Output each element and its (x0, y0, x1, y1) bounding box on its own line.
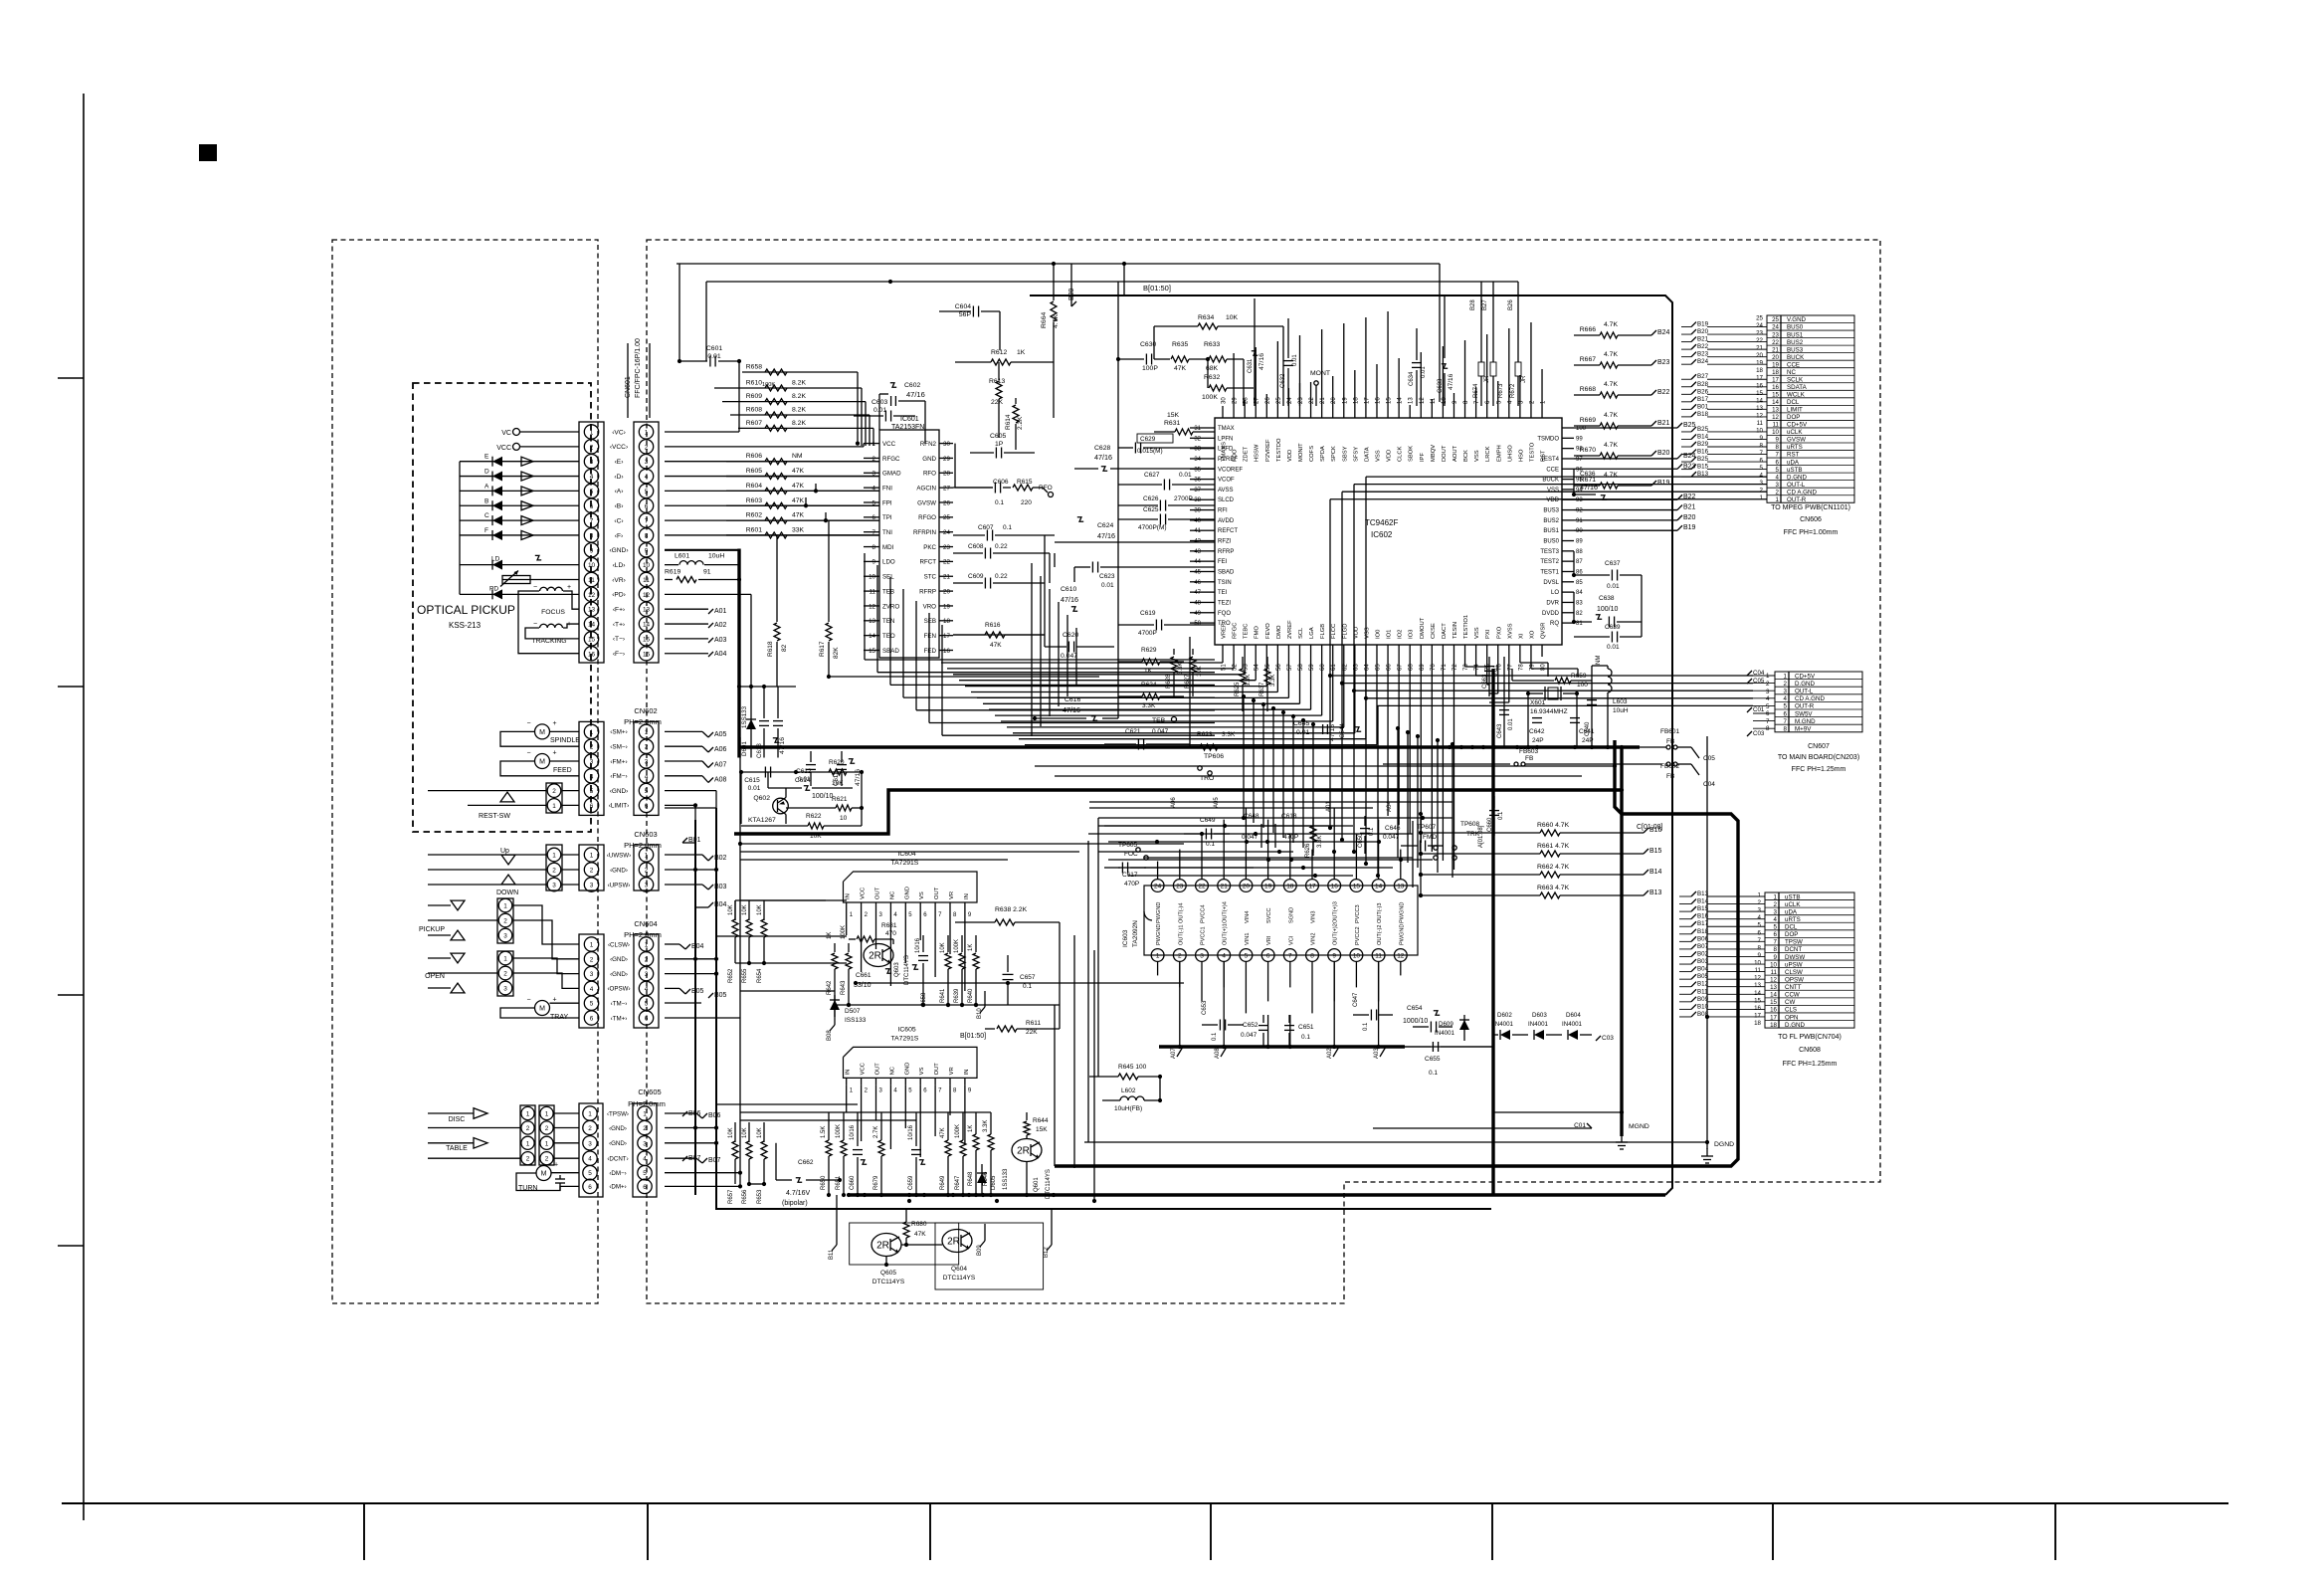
svg-text:Q604: Q604 (951, 1266, 967, 1273)
svg-text:1: 1 (1766, 673, 1770, 680)
svg-text:3: 3 (1200, 953, 1204, 960)
svg-text:47/16: 47/16 (1061, 595, 1078, 604)
svg-text:0.01: 0.01 (1607, 644, 1620, 651)
svg-text:0.01: 0.01 (1179, 472, 1192, 479)
svg-text:R611: R611 (1026, 1020, 1041, 1027)
svg-text:JR: JR (1521, 375, 1527, 383)
svg-text:SEL: SEL (882, 574, 894, 581)
wire PD row (665, 594, 751, 687)
svg-text:1K: 1K (1017, 349, 1026, 356)
svg-text:0.1: 0.1 (995, 499, 1004, 506)
svg-text:RFCT: RFCT (920, 559, 937, 566)
svg-text:0.1: 0.1 (1363, 1022, 1369, 1031)
svg-text:VIN1: VIN1 (1245, 933, 1251, 945)
resistor R629 1K (1118, 647, 1184, 675)
svg-text:PVREF: PVREF (1218, 457, 1238, 463)
svg-text:R673: R673 (1498, 383, 1504, 398)
svg-text:47K: 47K (792, 468, 805, 475)
capacitor C625 4700P(M) (1118, 506, 1215, 531)
svg-text:2: 2 (552, 788, 556, 795)
bus tag A03 (665, 637, 727, 644)
svg-text:27: 27 (943, 485, 950, 492)
svg-text:‹T+›: ‹T+› (613, 621, 625, 628)
svg-text:R647: R647 (955, 1175, 961, 1190)
svg-text:8: 8 (1310, 953, 1314, 960)
svg-text:1: 1 (590, 942, 594, 949)
svg-text:R653: R653 (757, 1189, 763, 1204)
capacitors C663 C643 0.01 (1482, 657, 1514, 747)
svg-text:C614: C614 (795, 777, 811, 784)
svg-text:‹F+›: ‹F+› (613, 607, 625, 614)
svg-text:B24: B24 (1657, 329, 1670, 336)
connector CN604 column B (607, 934, 659, 1028)
svg-text:C628: C628 (1094, 445, 1110, 452)
svg-text:17: 17 (943, 633, 950, 640)
svg-text:100P: 100P (1142, 365, 1158, 372)
svg-text:IC603: IC603 (1122, 929, 1129, 947)
svg-text:16.9344MHZ: 16.9344MHZ (1530, 708, 1568, 715)
svg-text:0.01: 0.01 (1101, 582, 1114, 589)
svg-text:84: 84 (1576, 590, 1583, 596)
svg-text:100K: 100K (762, 382, 775, 388)
inductor L601 10uH (665, 553, 739, 565)
capacitor C611 47/16 (773, 687, 786, 758)
svg-text:R666: R666 (1580, 326, 1596, 333)
svg-text:B07: B07 (708, 1157, 721, 1164)
connector CN608 table (1754, 892, 1854, 1069)
node RFO (1039, 485, 1054, 497)
svg-text:5: 5 (645, 788, 649, 795)
resistor R603 (665, 497, 879, 509)
svg-text:2: 2 (526, 1125, 530, 1132)
svg-text:47: 47 (1194, 590, 1201, 596)
svg-text:D: D (484, 469, 489, 476)
svg-text:A06: A06 (714, 746, 727, 753)
svg-text:3: 3 (590, 971, 594, 978)
svg-text:36: 36 (1194, 478, 1201, 484)
svg-text:97: 97 (1576, 457, 1583, 463)
svg-text:5: 5 (1758, 922, 1762, 929)
svg-text:0.047: 0.047 (1383, 834, 1400, 841)
svg-text:B13: B13 (1649, 889, 1662, 896)
svg-text:C654: C654 (1407, 1005, 1423, 1012)
svg-text:R632: R632 (1204, 374, 1220, 381)
svg-text:RFGC: RFGC (882, 456, 900, 463)
svg-text:2: 2 (645, 444, 649, 451)
svg-text:5: 5 (645, 1001, 649, 1008)
svg-text:13: 13 (1754, 982, 1761, 989)
svg-text:91: 91 (703, 569, 711, 576)
capacitor C630 100P (1116, 282, 1170, 438)
svg-text:TEST2: TEST2 (1540, 559, 1559, 565)
svg-text:10K: 10K (1226, 314, 1239, 321)
svg-text:VDD: VDD (1387, 450, 1393, 462)
svg-text:R634: R634 (1198, 314, 1214, 321)
resistor R622 10K (741, 772, 862, 840)
svg-text:100K: 100K (955, 1124, 961, 1138)
svg-text:43: 43 (1194, 549, 1201, 555)
turn motor M (516, 1162, 579, 1193)
svg-text:VS: VS (919, 891, 925, 899)
svg-text:PICKUP: PICKUP (419, 926, 445, 933)
svg-text:4: 4 (1222, 953, 1226, 960)
svg-text:‹DM+›: ‹DM+› (609, 1184, 626, 1191)
svg-text:4.7K: 4.7K (1604, 321, 1618, 328)
svg-text:GMAD: GMAD (882, 471, 901, 478)
IC603 bottom pin wires (1158, 961, 1401, 1013)
svg-text:20: 20 (943, 588, 950, 595)
svg-text:C613: C613 (756, 743, 763, 758)
svg-text:COFS: COFS (1309, 446, 1315, 462)
OPTICAL PICKUP title (417, 603, 515, 630)
svg-text:R635: R635 (1172, 341, 1188, 348)
transistor Q602 KTA1267 (741, 772, 788, 824)
capacitor C631 47/16 (1248, 298, 1265, 406)
svg-text:−: − (528, 1162, 532, 1169)
svg-text:‹GND›: ‹GND› (610, 956, 628, 963)
staircase wires into IC602 left (1032, 563, 1076, 736)
svg-text:VREF: VREF (1222, 623, 1228, 639)
svg-text:18: 18 (943, 618, 950, 625)
svg-text:OPEN: OPEN (425, 973, 445, 980)
svg-text:470P: 470P (1124, 881, 1139, 888)
svg-text:B14: B14 (1649, 869, 1662, 876)
svg-text:R679: R679 (873, 1175, 879, 1190)
svg-text:11: 11 (1375, 953, 1382, 960)
svg-text:SPDA: SPDA (1320, 446, 1326, 462)
svg-text:LDO: LDO (882, 559, 895, 566)
svg-text:PKC: PKC (923, 544, 936, 551)
svg-text:13: 13 (1756, 405, 1763, 412)
svg-text:DTC114YS: DTC114YS (943, 1275, 976, 1282)
svg-text:DGND: DGND (1714, 1141, 1734, 1148)
svg-text:TA2153FN: TA2153FN (891, 424, 924, 431)
svg-text:B25: B25 (1697, 426, 1709, 433)
svg-text:2: 2 (590, 956, 594, 963)
svg-text:EMPH: EMPH (1496, 445, 1502, 462)
net label B[01:50] lower (960, 1033, 986, 1040)
wire CN602 GND row (665, 791, 716, 808)
svg-text:4: 4 (590, 474, 594, 481)
svg-text:A04: A04 (714, 651, 727, 658)
svg-text:R602: R602 (746, 512, 762, 519)
svg-text:B23: B23 (1657, 359, 1670, 366)
resistor R658 (742, 364, 858, 376)
bold bus bottom to MGND (849, 1193, 1665, 1196)
capacitor C654 1000/10 (1403, 1005, 1452, 1033)
svg-text:89: 89 (1576, 539, 1583, 545)
svg-text:92: 92 (1576, 508, 1583, 514)
capacitor C650 0.1 (1358, 816, 1375, 854)
svg-text:A[01:08]: A[01:08] (1478, 825, 1484, 848)
resistor R650 1.5K (821, 1112, 832, 1194)
DOWN switch symbol (496, 875, 518, 896)
svg-text:9: 9 (645, 547, 649, 554)
svg-text:10uH: 10uH (708, 553, 724, 560)
svg-text:B22: B22 (1657, 389, 1670, 396)
svg-text:6: 6 (590, 503, 594, 510)
svg-text:1: 1 (645, 729, 649, 736)
svg-text:TESTIO1: TESTIO1 (1463, 615, 1469, 639)
svg-text:3: 3 (552, 883, 556, 889)
svg-text:4: 4 (645, 474, 649, 481)
IC603 top pins 24-13 (1151, 880, 1407, 923)
svg-text:6: 6 (590, 803, 594, 810)
feed motor M (500, 750, 579, 776)
feeder wires to IC605 forest (716, 1104, 991, 1184)
resistor R620 10K (829, 759, 847, 787)
svg-text:2: 2 (545, 1125, 549, 1132)
wire bundle CN607 to C bus (1328, 676, 1753, 878)
svg-text:TP608: TP608 (1460, 821, 1480, 828)
svg-text:TP607: TP607 (1417, 824, 1437, 831)
svg-text:SEB: SEB (924, 618, 936, 625)
capacitor C614 100/10 (768, 772, 853, 800)
IC603 bottom pins 1-12 (1151, 923, 1407, 961)
svg-text:7: 7 (1766, 718, 1770, 725)
svg-text:2: 2 (545, 1156, 549, 1163)
svg-text:‹LD›: ‹LD› (613, 562, 626, 569)
bus tag C01 (1373, 1122, 1592, 1129)
svg-text:BUS1: BUS1 (1543, 528, 1559, 534)
svg-text:M: M (539, 729, 545, 736)
photodiode PD (460, 585, 579, 599)
svg-text:OUT(-)3: OUT(-)3 (1377, 902, 1383, 923)
svg-text:SBAD: SBAD (882, 648, 899, 655)
capacitor C617 470P (1104, 863, 1146, 889)
svg-text:13: 13 (643, 607, 651, 614)
svg-text:3: 3 (645, 971, 649, 978)
svg-text:2: 2 (588, 1125, 592, 1132)
resistors R660-R663 4.7K (1419, 822, 1662, 836)
resistor R638 2.2K (955, 906, 1060, 925)
svg-text:5: 5 (590, 489, 594, 495)
svg-text:22K: 22K (991, 399, 1004, 406)
svg-text:IO2: IO2 (1398, 630, 1404, 639)
svg-text:VCOREF: VCOREF (1218, 467, 1243, 473)
tray motor M (500, 997, 579, 1022)
svg-text:A03: A03 (1374, 1048, 1380, 1059)
svg-text:7: 7 (590, 518, 594, 525)
bold bus A row IC603 (1159, 1045, 1493, 1048)
svg-text:8: 8 (1760, 443, 1764, 450)
svg-text:GVSW: GVSW (917, 499, 936, 506)
verticals right of IC605 (1060, 922, 1094, 1201)
svg-text:2: 2 (1758, 899, 1762, 906)
svg-text:B10: B10 (977, 1008, 983, 1019)
diode D601 1SS133 (741, 687, 756, 758)
svg-text:B24: B24 (1697, 358, 1709, 365)
svg-text:0.047: 0.047 (1061, 653, 1077, 660)
svg-text:470P: 470P (1283, 834, 1298, 841)
staircase wires IC601 to IC602 (865, 553, 1215, 735)
svg-text:R637: R637 (1259, 682, 1265, 696)
svg-text:‹GND›: ‹GND› (609, 1140, 627, 1147)
svg-text:+: + (567, 584, 571, 591)
svg-text:4.7K: 4.7K (1604, 412, 1618, 419)
svg-text:‹FM−›: ‹FM−› (610, 773, 627, 780)
svg-text:12: 12 (1756, 412, 1763, 419)
ferrite bead FB603 (1383, 748, 1662, 766)
svg-text:6: 6 (590, 1016, 594, 1023)
IC U602 TC9462F body (1215, 418, 1562, 645)
svg-text:47K: 47K (940, 1127, 946, 1138)
svg-text:LD: LD (491, 556, 500, 563)
svg-text:R640: R640 (968, 988, 974, 1003)
svg-text:3.3K: 3.3K (983, 1120, 989, 1132)
svg-text:3: 3 (590, 459, 594, 466)
transistor Q601 DTC114YS (1012, 1139, 1052, 1200)
svg-text:1: 1 (526, 1111, 530, 1118)
svg-text:34: 34 (1194, 457, 1201, 463)
capacitor C626 2700P (1118, 495, 1215, 511)
wire CN602 LIMIT row (665, 803, 697, 820)
diode D507 ISS133 (830, 995, 867, 1024)
svg-text:A03: A03 (714, 637, 727, 644)
svg-text:TEST4: TEST4 (1540, 457, 1559, 463)
svg-text:R645 100: R645 100 (1118, 1064, 1147, 1071)
capacitor C642 24P (1529, 718, 1545, 744)
wire top rail 2 (706, 280, 1518, 361)
svg-text:TESIN: TESIN (1452, 622, 1458, 639)
capacitor C658 10/16 (912, 935, 928, 1007)
svg-text:12: 12 (1397, 953, 1405, 960)
svg-text:B04: B04 (691, 943, 704, 950)
svg-text:C625: C625 (1143, 506, 1159, 513)
resistor R616 47K (953, 622, 1045, 649)
svg-text:FB603: FB603 (1519, 748, 1539, 755)
svg-text:TEN: TEN (882, 618, 894, 625)
svg-text:‹C›: ‹C› (614, 517, 623, 524)
wires IC602 top pins stubs (1223, 311, 1542, 406)
resistor R604 (665, 483, 879, 494)
svg-text:16: 16 (943, 648, 950, 655)
svg-text:10K: 10K (742, 904, 748, 915)
svg-text:PXI: PXI (1485, 629, 1491, 639)
svg-text:R681: R681 (881, 922, 897, 929)
svg-text:10uH(FB): 10uH(FB) (1114, 1105, 1142, 1112)
vertical wires between IC601 area and buses (953, 444, 1055, 647)
capacitor C660 0.1 rotated (1487, 796, 1504, 836)
svg-text:100K: 100K (1202, 394, 1218, 401)
svg-text:48: 48 (1194, 600, 1201, 606)
connector CN602 column B (634, 721, 659, 815)
svg-text:25: 25 (1756, 315, 1763, 322)
svg-text:1: 1 (1156, 953, 1160, 960)
svg-text:‹B›: ‹B› (615, 503, 624, 510)
net label B[01:50] (1124, 264, 1171, 296)
svg-text:47/16: 47/16 (906, 390, 925, 399)
svg-text:LPFN: LPFN (1218, 436, 1233, 442)
svg-text:BCK: BCK (1463, 450, 1469, 462)
svg-text:‹F›: ‹F› (615, 532, 623, 539)
bus tag B08 rotated (827, 1005, 835, 1041)
svg-text:B14: B14 (1697, 433, 1709, 440)
svg-text:−: − (533, 621, 537, 628)
capacitor C624 47/16 (1055, 517, 1215, 542)
svg-text:1: 1 (590, 430, 594, 437)
svg-text:R644: R644 (1033, 1117, 1049, 1124)
resistor R646 3.3K (983, 1112, 994, 1194)
svg-text:2.7K: 2.7K (873, 1126, 879, 1138)
svg-text:4: 4 (590, 773, 594, 780)
wire rows under IC604 (835, 981, 1184, 1007)
svg-text:12: 12 (643, 592, 651, 599)
svg-text:TESTDO: TESTDO (1276, 438, 1282, 462)
diode D603 IN4001 (1528, 1012, 1562, 1040)
svg-text:OUT(+)3: OUT(+)3 (1333, 901, 1339, 923)
svg-text:82K: 82K (833, 647, 840, 659)
svg-text:1.5K: 1.5K (821, 1126, 827, 1138)
IC U603 TA2092N body (1122, 886, 1418, 955)
Up switch symbol (428, 848, 546, 885)
svg-text:18: 18 (1754, 1020, 1761, 1027)
svg-text:3: 3 (588, 1140, 592, 1147)
svg-text:47K: 47K (1174, 365, 1187, 372)
ferrite bead FB601 (1640, 728, 1715, 762)
capacitor C639 0.01 (1574, 575, 1642, 651)
svg-text:B01: B01 (1697, 403, 1709, 410)
bold bus MGND vertical (1620, 747, 1624, 1136)
svg-text:B19: B19 (1683, 524, 1696, 531)
svg-text:12: 12 (1754, 975, 1761, 982)
svg-text:1K: 1K (968, 1125, 974, 1132)
svg-text:14: 14 (869, 633, 875, 640)
svg-text:+: + (553, 997, 557, 1004)
bus tag A04 (665, 651, 727, 658)
svg-text:A07: A07 (714, 762, 727, 769)
wire bundle CN606 audio rows (1328, 477, 1767, 700)
svg-text:DTC114YS: DTC114YS (1046, 1169, 1052, 1199)
svg-text:32: 32 (1194, 436, 1201, 442)
svg-text:C640: C640 (1585, 721, 1591, 736)
svg-text:TA7291S: TA7291S (891, 1035, 919, 1042)
svg-text:CN603: CN603 (634, 830, 657, 839)
svg-text:6: 6 (645, 503, 649, 510)
svg-text:6: 6 (588, 1184, 592, 1191)
svg-text:QVSR: QVSR (1541, 623, 1547, 639)
svg-text:TC9462F: TC9462F (1365, 518, 1398, 527)
svg-text:C03: C03 (1602, 1035, 1614, 1042)
svg-text:4.7/16V: 4.7/16V (786, 1190, 810, 1197)
svg-text:‹FM+›: ‹FM+› (610, 758, 627, 765)
svg-text:9: 9 (1332, 953, 1336, 960)
bus tags B06 B07 from CN605 (665, 1112, 740, 1186)
svg-text:B15: B15 (1697, 464, 1709, 471)
svg-text:NC: NC (889, 1067, 895, 1075)
svg-text:R616: R616 (985, 622, 1001, 629)
svg-text:VR: VR (949, 891, 955, 899)
capacitor C629 0.015(M) (1118, 434, 1215, 455)
svg-text:B17: B17 (1697, 396, 1709, 403)
svg-text:C601: C601 (706, 345, 722, 352)
svg-text:PXO: PXO (1496, 626, 1502, 639)
svg-text:B21: B21 (1697, 336, 1709, 343)
svg-text:R650: R650 (821, 1175, 827, 1190)
svg-text:14: 14 (1756, 397, 1763, 404)
svg-text:17: 17 (1308, 884, 1316, 890)
capacitor C605 1P (970, 433, 1035, 459)
svg-text:B19: B19 (1697, 321, 1709, 328)
svg-text:11: 11 (1755, 967, 1762, 974)
svg-text:CLCK: CLCK (1398, 446, 1404, 462)
CN606 bus tag column (1681, 321, 1767, 479)
svg-text:FLGD: FLGD (1342, 624, 1348, 639)
svg-text:B27: B27 (1697, 373, 1709, 380)
svg-text:OUT: OUT (934, 887, 940, 899)
svg-text:87: 87 (1576, 559, 1583, 565)
svg-text:C637: C637 (1605, 560, 1621, 567)
